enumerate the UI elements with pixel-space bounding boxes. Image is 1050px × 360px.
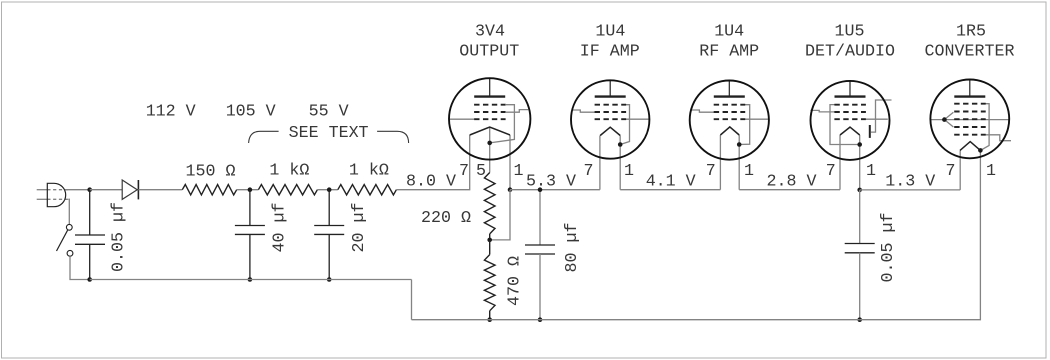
wire tube V5 pin 1 to ground bus xyxy=(860,150,981,319)
label 5.3 V xyxy=(526,172,576,191)
svg-text:80 µf: 80 µf xyxy=(563,223,582,273)
capacitor C4 80 uf xyxy=(525,190,555,320)
svg-text:0.05 µf: 0.05 µf xyxy=(879,213,898,283)
pin 7 label V5 xyxy=(946,162,956,181)
wire 4.1V rail xyxy=(620,189,720,191)
resistor R1 150 ohm xyxy=(182,185,236,195)
svg-text:55 V: 55 V xyxy=(309,103,349,122)
wire tube V5 pin 7 lead xyxy=(959,150,961,190)
svg-text:0.05 µf: 0.05 µf xyxy=(109,202,128,272)
svg-text:20 µf: 20 µf xyxy=(350,203,369,253)
svg-text:1R5: 1R5 xyxy=(956,22,986,41)
svg-text:1U5: 1U5 xyxy=(835,22,865,41)
svg-text:220 Ω: 220 Ω xyxy=(421,209,471,228)
svg-text:3V4: 3V4 xyxy=(475,22,505,41)
resistor R3 1 kohm xyxy=(338,185,397,195)
ground node C2 xyxy=(248,277,253,282)
tube V1 3V4 xyxy=(449,78,530,159)
wire tube V4 pin 7 lead xyxy=(839,135,841,190)
svg-text:CONVERTER: CONVERTER xyxy=(925,42,1015,61)
diode D1 xyxy=(122,180,138,199)
wire node A to diode xyxy=(90,189,123,191)
label 112 V xyxy=(146,103,196,122)
svg-text:7: 7 xyxy=(826,162,836,181)
svg-text:150 Ω: 150 Ω xyxy=(186,162,236,181)
ground node C5 xyxy=(857,317,862,322)
svg-text:470 Ω: 470 Ω xyxy=(506,256,525,306)
label tube V1 type xyxy=(475,22,505,41)
AC plug P1 xyxy=(37,183,69,206)
svg-text:1: 1 xyxy=(744,162,754,181)
label tube V5 function xyxy=(925,42,1015,61)
svg-text:8.0 V: 8.0 V xyxy=(406,172,456,191)
ground node R5 xyxy=(487,317,492,322)
tube V4 1U5 xyxy=(810,81,891,160)
tube V3 1U4 xyxy=(690,81,769,160)
ground bus right xyxy=(412,319,860,321)
node C4 top xyxy=(538,187,543,192)
label 20 uf xyxy=(350,203,369,253)
label tube V3 type xyxy=(714,22,744,41)
svg-text:1U4: 1U4 xyxy=(595,22,625,41)
svg-text:IF AMP: IF AMP xyxy=(580,42,640,61)
wire tube V4 pin 1 lead xyxy=(859,135,861,190)
svg-text:1 kΩ: 1 kΩ xyxy=(269,162,309,181)
svg-text:40 µf: 40 µf xyxy=(271,203,290,253)
label tube V3 function xyxy=(699,42,759,61)
label 0.05 uf C5 xyxy=(879,213,898,283)
label 150 ohm xyxy=(186,162,236,181)
label 80 uf xyxy=(563,223,582,273)
wire tube V1 pin 1 lead xyxy=(509,135,511,190)
pin 1 label V1 xyxy=(514,162,524,181)
ground bus step xyxy=(411,280,413,320)
wire tube V2 pin 1 lead xyxy=(619,136,621,190)
svg-text:5.3 V: 5.3 V xyxy=(526,172,576,191)
tube V5 1R5 xyxy=(930,80,1011,159)
pin 1 label V5 xyxy=(986,162,996,181)
tube V3 grid dot xyxy=(737,142,742,147)
label SEE TEXT xyxy=(289,124,369,143)
node 1.3V junction xyxy=(857,188,862,193)
svg-text:DET/AUDIO: DET/AUDIO xyxy=(805,42,895,61)
bracket under SEE TEXT xyxy=(249,131,409,143)
wire diode to R 150 xyxy=(138,189,182,191)
ground node C3 xyxy=(327,277,332,282)
label 40 uf xyxy=(271,203,290,253)
ground node C4 xyxy=(538,317,543,322)
wire switch to ground bus xyxy=(70,256,90,279)
resistor R2 1 kohm xyxy=(258,185,317,195)
tube V2 grid dot xyxy=(618,142,623,147)
pin 1 label V2 xyxy=(624,162,634,181)
wire R3 to tube V1 pin 7 xyxy=(396,135,469,190)
svg-text:2.8 V: 2.8 V xyxy=(767,172,817,191)
ground bus left xyxy=(90,279,412,281)
svg-text:5: 5 xyxy=(476,162,486,181)
wire plug to node A xyxy=(66,189,90,191)
resistor R4 220 ohm xyxy=(484,173,495,240)
label tube V2 type xyxy=(595,22,625,41)
label tube V1 function xyxy=(459,42,519,61)
tube V5 filament dot xyxy=(978,148,983,153)
resistor R5 470 ohm xyxy=(484,240,495,320)
wire tube V2 pin 7 lead xyxy=(599,136,601,190)
label 0.05 uf C1 xyxy=(109,202,128,272)
wire tube V3 pin 1 lead xyxy=(738,135,740,190)
capacitor C5 0.05 uf xyxy=(845,190,875,320)
label tube V2 function xyxy=(580,42,640,61)
svg-text:105 V: 105 V xyxy=(226,103,276,122)
wire tube V1 pin 5 lead xyxy=(489,143,491,173)
node 5.3V junction xyxy=(508,187,513,192)
svg-text:1: 1 xyxy=(514,162,524,181)
tube V2 1U4 xyxy=(571,80,649,158)
svg-text:1 kΩ: 1 kΩ xyxy=(349,162,389,181)
label 1 kohm R3 xyxy=(349,162,389,181)
node C junction 55V xyxy=(327,187,332,192)
pin 7 label V3 xyxy=(706,162,716,181)
label 4.1 V xyxy=(646,172,696,191)
svg-text:1U4: 1U4 xyxy=(714,22,744,41)
svg-text:1.3 V: 1.3 V xyxy=(885,172,935,191)
svg-text:4.1 V: 4.1 V xyxy=(646,172,696,191)
label 2.8 V xyxy=(767,172,817,191)
label 220 ohm xyxy=(421,209,471,228)
label 1.3 V xyxy=(885,172,935,191)
tube V1 grid dot xyxy=(487,141,492,146)
wire node 5.3V to R4 R5 junction xyxy=(490,190,510,240)
label tube V4 function xyxy=(805,42,895,61)
pin 7 label V1 xyxy=(459,162,469,181)
capacitor C1 0.05 uf xyxy=(75,192,105,280)
wire 1.3V rail xyxy=(860,189,961,191)
node R4 R5 junction xyxy=(487,238,492,243)
svg-text:RF AMP: RF AMP xyxy=(699,42,759,61)
label tube V5 type xyxy=(956,22,986,41)
ground node C1 xyxy=(87,277,92,282)
wire R2 to node C xyxy=(317,189,337,191)
svg-text:OUTPUT: OUTPUT xyxy=(459,42,519,61)
capacitor C3 20 uf xyxy=(314,190,344,280)
wire R1 to node B xyxy=(237,189,259,191)
svg-text:7: 7 xyxy=(706,162,716,181)
label tube V4 type xyxy=(835,22,865,41)
pin 1 label V3 xyxy=(744,162,754,181)
svg-text:112 V: 112 V xyxy=(146,103,196,122)
svg-text:7: 7 xyxy=(459,162,469,181)
label 1 kohm R2 xyxy=(269,162,309,181)
node B junction 105V xyxy=(248,187,253,192)
node A junction xyxy=(87,187,92,192)
svg-text:7: 7 xyxy=(584,162,594,181)
capacitor C2 40 uf xyxy=(235,190,265,280)
pin 1 label V4 xyxy=(866,162,876,181)
wire 5.3V rail xyxy=(510,189,600,191)
pin 5 label V1 xyxy=(476,162,486,181)
svg-text:SEE TEXT: SEE TEXT xyxy=(289,124,369,143)
svg-text:1: 1 xyxy=(866,162,876,181)
tube V4 grid dot xyxy=(857,142,862,147)
wire 2.8V rail xyxy=(739,189,840,191)
svg-text:7: 7 xyxy=(946,162,956,181)
svg-text:1: 1 xyxy=(986,162,996,181)
label 470 ohm xyxy=(506,256,525,306)
pin 7 label V2 xyxy=(584,162,594,181)
label 105 V xyxy=(226,103,276,122)
svg-text:1: 1 xyxy=(624,162,634,181)
wire tube V3 pin 7 lead xyxy=(719,135,721,190)
switch S1 xyxy=(57,224,73,256)
label 55 V xyxy=(309,103,349,122)
wire plug to switch xyxy=(68,199,69,224)
label 8.0 V xyxy=(406,172,456,191)
pin 7 label V4 xyxy=(826,162,836,181)
tube V5 grid dot left xyxy=(942,117,947,122)
